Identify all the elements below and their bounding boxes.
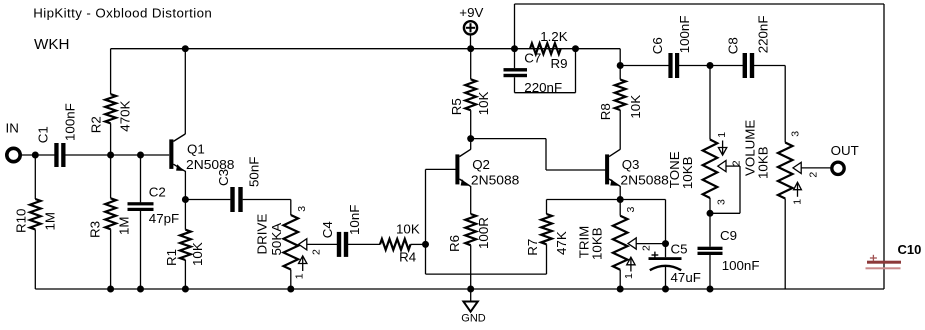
wire Q2 collector to Q3 base <box>471 139 606 170</box>
svg-text:2: 2 <box>310 249 322 255</box>
svg-text:R9: R9 <box>551 56 568 71</box>
output jack OUT <box>832 162 844 174</box>
svg-text:Q2: Q2 <box>472 157 490 172</box>
resistor R2 <box>89 49 133 155</box>
potentiometer VOLUME 10KB <box>743 120 820 205</box>
svg-text:3: 3 <box>296 206 308 212</box>
svg-text:10KB: 10KB <box>589 227 604 260</box>
wire VOLUME wiper to OUT <box>801 167 832 169</box>
svg-text:50KA: 50KA <box>269 223 284 256</box>
node R1 at bus <box>182 286 189 293</box>
svg-text:C2: C2 <box>149 184 166 199</box>
power symbol +9V <box>459 5 483 49</box>
wire DRIVE pin1 to ground bus <box>290 270 292 290</box>
svg-text:C6: C6 <box>650 37 665 54</box>
wire C8 to VOLUME <box>754 66 785 143</box>
wire Q1 emitter to C3 <box>185 199 230 201</box>
power rail wire <box>111 48 576 50</box>
svg-text:47K: 47K <box>554 231 569 255</box>
svg-text:R5: R5 <box>449 98 464 115</box>
svg-text:10KB: 10KB <box>755 146 770 179</box>
svg-text:2: 2 <box>807 172 819 178</box>
resistor R9 <box>524 29 567 71</box>
potentiometer TONE 10KB <box>667 66 743 206</box>
wire node up to Q2 base <box>426 169 456 244</box>
capacitor C4 <box>320 205 362 257</box>
wire Q1 collector to rail <box>184 49 186 135</box>
node TRIM wiper/C5 <box>662 240 669 247</box>
node C6/C8/TONE <box>707 62 714 69</box>
potentiometer TRIM 10KB <box>576 200 652 280</box>
node TRIM at bus <box>617 286 624 293</box>
svg-text:3: 3 <box>625 207 637 213</box>
svg-text:Q1: Q1 <box>187 141 205 156</box>
svg-text:R2: R2 <box>89 116 104 133</box>
potentiometer DRIVE 50KA <box>255 206 323 280</box>
resistor R8 <box>598 66 643 121</box>
node Q1 collector at rail <box>182 45 189 52</box>
svg-text:R10: R10 <box>13 209 28 233</box>
svg-text:C9: C9 <box>720 228 737 243</box>
svg-text:1: 1 <box>623 273 635 279</box>
wire C1 to Q1 base row <box>65 154 169 156</box>
wire TONE wiper to tie node <box>710 166 740 213</box>
node Q3 emitter <box>617 196 624 203</box>
wire feedback loop to R7 <box>426 244 547 274</box>
node C5 at bus <box>662 286 669 293</box>
transistor Q3 <box>605 149 669 187</box>
wire Q3 emitter down <box>619 186 621 200</box>
node C9 at bus <box>707 286 714 293</box>
node Q2 collector <box>467 135 474 142</box>
input jack IN <box>7 148 20 161</box>
wire R8 node to C6 <box>620 65 669 67</box>
svg-text:1M: 1M <box>116 216 131 235</box>
svg-text:10nF: 10nF <box>347 205 362 235</box>
resistor R5 <box>449 49 491 139</box>
svg-text:10KB: 10KB <box>680 156 695 189</box>
node R8/C6 <box>617 62 624 69</box>
capacitor C9 <box>698 213 760 289</box>
svg-text:IN: IN <box>6 120 19 135</box>
svg-text:100nF: 100nF <box>722 258 760 273</box>
svg-text:R1: R1 <box>164 249 179 266</box>
capacitor C8 <box>710 16 771 78</box>
svg-text:47uF: 47uF <box>671 270 701 285</box>
capacitor C2 <box>128 155 180 289</box>
wire C3 to DRIVE pot <box>243 200 291 216</box>
wire TRIM pin1 to bus <box>619 270 621 289</box>
svg-text:220nF: 220nF <box>756 16 771 54</box>
node R2/R3 on base row <box>107 152 114 159</box>
svg-text:R7: R7 <box>525 239 540 256</box>
svg-text:1: 1 <box>792 199 804 205</box>
svg-text:1.2K: 1.2K <box>540 29 568 44</box>
node DRIVE at bus <box>287 286 294 293</box>
node R9 right <box>572 45 579 52</box>
title text <box>33 6 212 21</box>
capacitor C1 <box>36 103 78 167</box>
svg-text:100nF: 100nF <box>62 103 77 141</box>
wire DRIVE wiper to C4 <box>307 243 338 245</box>
svg-text:1M: 1M <box>43 212 58 231</box>
svg-text:50nF: 50nF <box>247 157 262 187</box>
wire Q3 collector to R8 <box>619 110 621 150</box>
svg-text:1: 1 <box>716 132 728 138</box>
top supply wire to C10 <box>515 4 885 289</box>
resistor R7 <box>525 200 569 256</box>
capacitor C7 <box>504 49 563 95</box>
svg-text:2: 2 <box>731 160 743 166</box>
capacitor C6 <box>650 16 692 78</box>
svg-text:R3: R3 <box>88 221 103 238</box>
wire rail to R8/C6 node <box>576 49 621 66</box>
resistor R10 <box>13 155 57 289</box>
svg-text:100nF: 100nF <box>677 16 692 54</box>
svg-text:2N5088: 2N5088 <box>471 173 520 188</box>
svg-text:10K: 10K <box>476 91 491 115</box>
svg-text:3: 3 <box>715 199 727 205</box>
OUT label <box>831 143 859 158</box>
wire Q3 emitter row to R7 <box>547 199 621 201</box>
svg-text:47pF: 47pF <box>149 211 179 226</box>
node C2 on base row <box>137 152 144 159</box>
svg-text:Q3: Q3 <box>622 157 640 172</box>
svg-text:2N5088: 2N5088 <box>620 173 669 188</box>
transistor Q2 <box>455 149 519 187</box>
svg-text:C1: C1 <box>36 126 51 143</box>
svg-text:10K: 10K <box>190 242 205 266</box>
wire Q3 emitter branch to C5 node <box>620 200 665 244</box>
wire Q1 emitter down <box>184 171 186 200</box>
node TONE tie <box>707 210 714 217</box>
svg-text:HipKitty - Oxblood Distortion: HipKitty - Oxblood Distortion <box>33 6 212 21</box>
wire Q2 emitter to R6 <box>470 186 472 214</box>
svg-text:100R: 100R <box>476 217 491 249</box>
wire VOLUME pin1 to bus <box>784 199 786 290</box>
node C7/R9 left <box>511 45 518 52</box>
resistor R6 <box>447 214 491 289</box>
svg-text:10K: 10K <box>396 221 420 236</box>
capacitor C3 <box>216 157 262 212</box>
svg-text:R8: R8 <box>598 103 613 120</box>
IN label <box>6 120 19 135</box>
svg-text:2: 2 <box>640 245 652 251</box>
wire TONE pin3 to tie node <box>709 198 711 213</box>
resistor R3 <box>88 155 132 289</box>
capacitor C10 mod in red <box>866 242 922 269</box>
resistor R1 <box>164 200 205 290</box>
svg-text:DRIVE: DRIVE <box>255 214 270 255</box>
svg-text:GND: GND <box>461 313 486 325</box>
svg-text:C5: C5 <box>671 242 688 257</box>
svg-text:OUT: OUT <box>831 143 859 158</box>
wire input jack to C1 <box>21 154 55 156</box>
wire C7/R9 bottom loop <box>515 49 576 93</box>
capacitor C5 electrolytic <box>649 242 701 289</box>
svg-text:3: 3 <box>790 131 802 137</box>
svg-text:10K: 10K <box>628 95 643 119</box>
svg-text:C7: C7 <box>524 51 541 66</box>
svg-text:R6: R6 <box>447 235 462 252</box>
svg-text:470K: 470K <box>117 100 132 131</box>
node R3 at bus <box>107 286 114 293</box>
ground bus wire <box>35 288 884 290</box>
node R4/Q2 base/feedback <box>422 241 429 248</box>
wire C6 to TONE node <box>678 65 710 67</box>
svg-text:C8: C8 <box>726 37 741 54</box>
svg-text:+9V: +9V <box>459 5 483 20</box>
node +9V at rail <box>467 45 474 52</box>
transistor Q1 <box>169 134 234 172</box>
svg-text:C4: C4 <box>320 221 335 239</box>
node R6/GND at bus <box>467 286 474 293</box>
svg-text:1: 1 <box>293 273 305 279</box>
node input/R10 <box>32 152 39 159</box>
wire TRIM wiper to C5 node <box>636 243 665 245</box>
svg-text:C10: C10 <box>898 242 922 257</box>
svg-text:R4: R4 <box>399 249 417 264</box>
wire R4 to node <box>411 243 426 245</box>
wire C4 to R4 <box>348 243 381 245</box>
wire Q2 collector up <box>470 139 472 150</box>
author text WKH <box>34 36 69 53</box>
node Q1 emitter <box>182 196 189 203</box>
ground symbol GND <box>461 289 486 325</box>
svg-text:C3: C3 <box>216 169 231 186</box>
node C2 at bus <box>137 286 144 293</box>
resistor R4 <box>380 221 420 264</box>
svg-text:WKH: WKH <box>34 36 69 53</box>
